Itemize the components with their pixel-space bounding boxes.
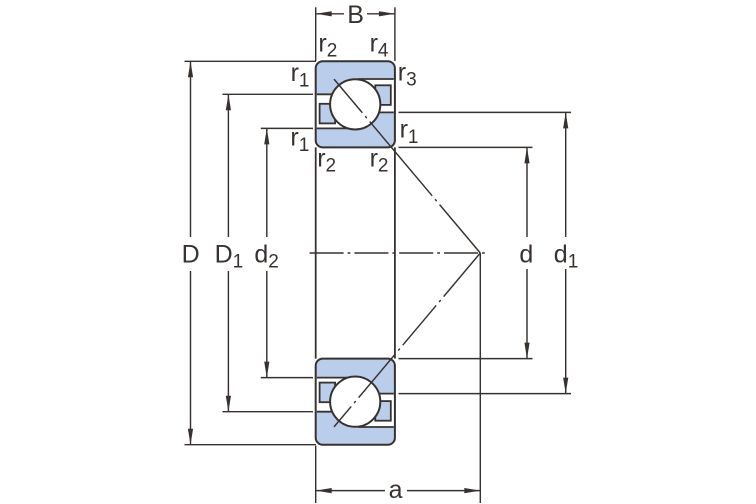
extension line d2 bottom <box>261 377 313 379</box>
ball (top section) <box>330 79 380 129</box>
svg-text:r2: r2 <box>318 29 337 61</box>
svg-text:r2: r2 <box>317 144 336 176</box>
apex vertical line <box>479 253 481 503</box>
svg-text:d2: d2 <box>254 240 278 272</box>
cage bar right (bottom section) <box>375 401 391 421</box>
bore face line right <box>394 147 396 358</box>
contact angle line bottom <box>334 253 480 427</box>
dimension d <box>526 147 528 358</box>
svg-text:a: a <box>389 476 403 504</box>
left gap between rings (top section) <box>317 94 355 128</box>
svg-text:d: d <box>519 240 533 268</box>
bearing bottom section (mirror) <box>316 359 395 445</box>
extension line d bottom <box>399 358 533 360</box>
extension line D1 top <box>222 93 313 95</box>
svg-text:D1: D1 <box>215 240 244 272</box>
ball (bottom section) <box>330 377 380 427</box>
svg-text:D: D <box>182 240 200 268</box>
svg-text:r2: r2 <box>370 144 389 176</box>
svg-text:r4: r4 <box>370 29 389 61</box>
dimension D <box>190 61 192 444</box>
right gap between rings (bottom section) <box>355 394 394 427</box>
extension line d2 top <box>261 127 313 129</box>
horizontal centerline <box>310 252 487 254</box>
dimension a <box>316 490 481 492</box>
bearing top section: outer+inner ring cross-section <box>316 61 395 147</box>
svg-text:r1: r1 <box>400 116 419 148</box>
contact angle line top <box>334 79 480 253</box>
extension line a left <box>315 446 317 503</box>
cage bar right (top section) <box>375 85 391 105</box>
extension line D top <box>185 60 317 62</box>
dimension D1 <box>227 94 229 411</box>
extension line D bottom <box>185 444 317 446</box>
dimension B <box>316 13 395 15</box>
extension line B left <box>315 7 317 61</box>
svg-text:d1: d1 <box>554 240 578 272</box>
extension line d top <box>399 146 533 148</box>
extension line B right <box>394 7 396 61</box>
svg-text:r1: r1 <box>291 59 310 91</box>
dimension d1 <box>565 112 567 393</box>
extension line D1 bottom <box>222 411 313 413</box>
cage bar left (top section) <box>320 104 336 124</box>
right gap between rings (top section) <box>355 79 394 112</box>
left gap between rings (bottom section) <box>317 378 355 412</box>
svg-text:B: B <box>347 1 364 29</box>
dimension d2 <box>266 128 268 377</box>
extension line d1 top <box>399 111 572 113</box>
svg-text:r3: r3 <box>398 58 417 90</box>
extension line d1 bottom <box>399 393 572 395</box>
cage bar left (bottom section) <box>320 383 336 403</box>
bore face line left <box>315 147 317 358</box>
